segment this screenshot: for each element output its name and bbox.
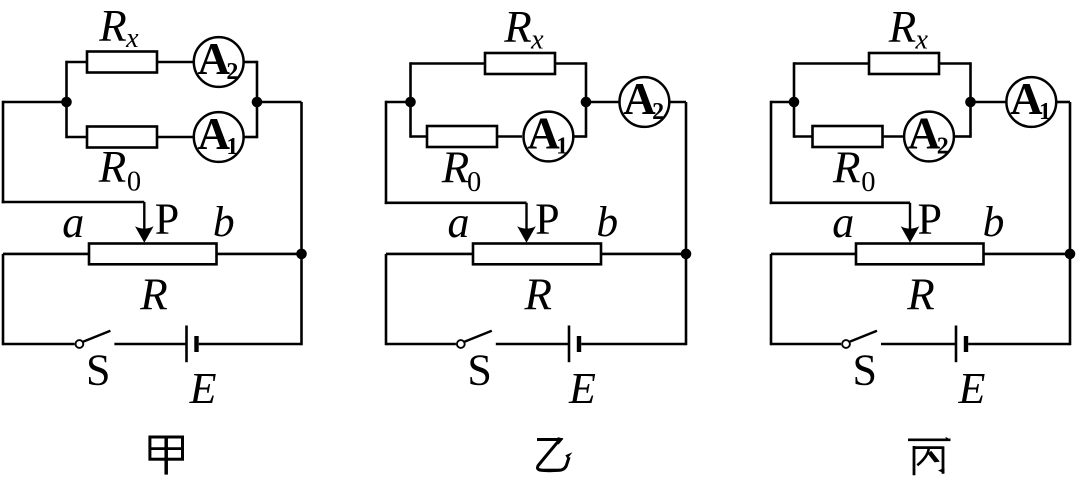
svg-text:E: E [189, 364, 217, 413]
svg-text:a: a [832, 198, 854, 247]
svg-text:x: x [530, 24, 544, 55]
svg-text:R: R [98, 1, 127, 51]
svg-text:R: R [441, 143, 470, 193]
svg-text:R: R [906, 270, 935, 320]
svg-text:R: R [888, 2, 917, 52]
svg-text:2: 2 [226, 59, 238, 85]
svg-text:b: b [213, 198, 235, 246]
svg-text:x: x [125, 23, 139, 54]
svg-text:R: R [503, 2, 532, 52]
svg-text:a: a [62, 198, 84, 247]
svg-text:P: P [535, 194, 559, 243]
svg-text:1: 1 [556, 134, 568, 160]
svg-text:E: E [957, 364, 985, 413]
svg-text:1: 1 [226, 134, 238, 160]
svg-text:R: R [524, 270, 553, 320]
svg-text:0: 0 [467, 167, 481, 198]
svg-text:b: b [596, 198, 618, 246]
svg-text:b: b [983, 198, 1005, 246]
svg-text:P: P [155, 194, 179, 243]
svg-text:R: R [139, 270, 168, 320]
svg-text:0: 0 [861, 167, 875, 198]
svg-text:2: 2 [937, 134, 949, 160]
svg-text:2: 2 [652, 99, 664, 125]
svg-text:E: E [568, 364, 596, 413]
svg-text:R: R [832, 143, 861, 193]
svg-text:P: P [918, 194, 942, 243]
svg-text:S: S [86, 346, 110, 395]
svg-text:x: x [915, 24, 929, 55]
svg-text:1: 1 [1039, 99, 1051, 125]
svg-text:a: a [448, 198, 470, 247]
svg-text:0: 0 [127, 167, 141, 198]
svg-text:S: S [853, 346, 877, 395]
svg-text:R: R [98, 142, 127, 192]
svg-text:S: S [467, 346, 491, 395]
